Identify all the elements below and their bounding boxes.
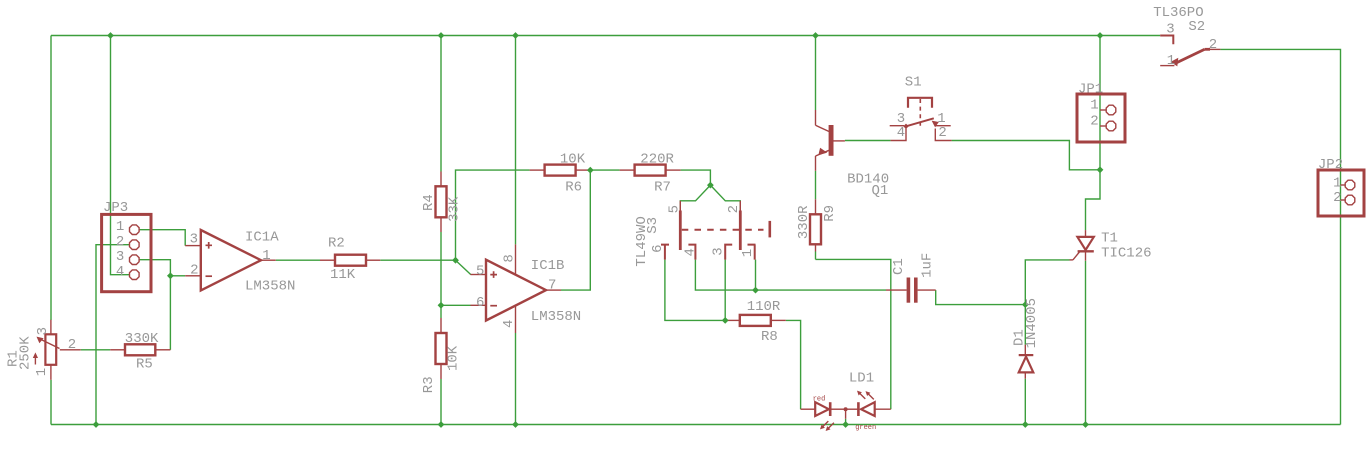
- svg-text:R5: R5: [136, 356, 153, 372]
- svg-text:11K: 11K: [330, 267, 356, 283]
- pushbutton S1: [890, 98, 952, 141]
- svg-text:6: 6: [476, 295, 484, 311]
- svg-text:1: 1: [1167, 53, 1175, 69]
- junction R8 input: [722, 317, 729, 324]
- svg-text:JP2: JP2: [1318, 157, 1343, 173]
- switch S3 TL49WO: [661, 201, 770, 260]
- wire node C to IC1B -in: [441, 304, 471, 306]
- wire S3 pin3 down: [724, 260, 726, 321]
- svg-text:4: 4: [116, 264, 124, 280]
- wire node D to D1: [1024, 305, 1026, 345]
- svg-text:6: 6: [650, 244, 666, 252]
- junction top rail at JP1 column: [1097, 32, 1104, 39]
- svg-text:2: 2: [116, 234, 124, 250]
- junction node D: [1022, 301, 1029, 308]
- wire LD1 center to bottom rail: [845, 419, 847, 425]
- svg-text:red: red: [813, 396, 826, 404]
- junction bottom rail at JP3 column: [93, 421, 100, 428]
- svg-text:1: 1: [1333, 175, 1341, 191]
- svg-text:2: 2: [726, 205, 742, 213]
- svg-text:250K: 250K: [18, 336, 34, 370]
- resistor R6: [530, 165, 591, 176]
- thyristor T1 TIC126: [1070, 230, 1094, 261]
- svg-text:TIC126: TIC126: [1101, 246, 1151, 262]
- svg-text:1N4005: 1N4005: [1024, 298, 1040, 348]
- wire IC1B out up to R6 junction: [561, 170, 590, 290]
- svg-text:1: 1: [262, 248, 270, 264]
- wire S3 junction diagonal left to pin5: [680, 185, 710, 210]
- svg-text:110R: 110R: [747, 299, 781, 315]
- wire IC1A out to R2: [276, 259, 320, 261]
- svg-text:1: 1: [116, 219, 124, 235]
- resistor R5: [110, 344, 170, 355]
- wire JP1 column from top rail: [1099, 36, 1101, 170]
- wire R7 to S3 junction: [681, 170, 711, 185]
- svg-text:5: 5: [666, 205, 682, 213]
- junction S3 input: [707, 182, 714, 189]
- svg-text:2: 2: [1090, 114, 1098, 130]
- wire R2 to node B: [380, 259, 455, 261]
- svg-text:R2: R2: [328, 236, 345, 252]
- connector JP3: [102, 214, 151, 291]
- wire right edge (S2 pin2 to JP2 and bottom rail): [1220, 49, 1340, 424]
- wire left edge lower (R1 pin 1 to bottom rail): [50, 380, 52, 425]
- potentiometer R1: [33, 320, 81, 380]
- svg-text:3: 3: [1166, 22, 1174, 38]
- svg-text:3: 3: [35, 327, 51, 335]
- svg-text:220R: 220R: [640, 151, 674, 167]
- junction node B: [452, 257, 459, 264]
- wire node B diagonal to IC1B +in: [456, 260, 471, 274]
- svg-text:2: 2: [190, 262, 198, 278]
- op-amp U1 IC1B: [471, 244, 562, 333]
- wire IC1B pin4 to bottom rail: [515, 333, 517, 425]
- svg-text:T1: T1: [1101, 231, 1118, 247]
- resistor R3: [436, 318, 447, 379]
- svg-text:IC1A: IC1A: [245, 229, 279, 245]
- svg-text:C1: C1: [891, 258, 907, 275]
- wire top rail: [51, 35, 1160, 37]
- resistor R9: [810, 199, 821, 259]
- node A wire to IC1A -in: [170, 275, 185, 277]
- svg-text:2: 2: [938, 125, 946, 141]
- svg-text:33K: 33K: [447, 196, 463, 222]
- svg-text:330K: 330K: [125, 331, 159, 347]
- svg-text:R7: R7: [654, 180, 671, 196]
- wire R9 to green LED: [816, 259, 891, 409]
- svg-text:LM358N: LM358N: [245, 278, 295, 294]
- wire S3 junction diagonal right to pin2: [710, 185, 740, 210]
- svg-text:green: green: [855, 424, 876, 432]
- svg-text:3: 3: [711, 247, 727, 255]
- resistor R4: [436, 172, 447, 233]
- junction node C: [438, 302, 445, 309]
- wire left edge upper (top rail to R1 pin 3): [50, 36, 52, 321]
- wire R6 junction to R7: [590, 169, 619, 171]
- wire Q1 to R9: [815, 171, 817, 200]
- svg-text:S3: S3: [645, 217, 661, 234]
- junction top rail at JP3 column: [107, 32, 114, 39]
- wire R3 bottom to bottom rail: [440, 379, 442, 425]
- svg-text:1: 1: [740, 249, 756, 257]
- svg-text:10K: 10K: [560, 151, 586, 167]
- connector JP2: [1318, 170, 1364, 216]
- svg-text:10K: 10K: [446, 345, 462, 371]
- junction top rail at Q1 column: [812, 32, 819, 39]
- capacitor C1: [886, 278, 936, 303]
- wire S1 to T1 anode path: [952, 141, 1100, 170]
- junction bottom rail at T1: [1082, 421, 1089, 428]
- svg-text:JP1: JP1: [1078, 82, 1103, 98]
- svg-text:2: 2: [68, 337, 76, 353]
- junction S3 pin1: [752, 287, 759, 294]
- svg-text:S1: S1: [905, 75, 922, 91]
- wire R4 bottom to node C: [440, 232, 442, 305]
- svg-text:330R: 330R: [796, 205, 812, 239]
- svg-text:R4: R4: [421, 194, 437, 211]
- resistor R8: [725, 315, 786, 326]
- wire IC1B pin8 from top rail: [515, 36, 517, 245]
- svg-text:3: 3: [190, 231, 198, 247]
- svg-text:1: 1: [34, 368, 50, 376]
- diode D1 1N4005: [1019, 345, 1034, 379]
- wire JP3 pin3 to node A: [139, 260, 170, 276]
- svg-text:2: 2: [1333, 190, 1341, 206]
- wire Q1 base to S1: [845, 140, 891, 142]
- resistor R7: [620, 165, 681, 176]
- wire S3 pin4 to C1: [695, 260, 886, 291]
- svg-text:5: 5: [476, 263, 484, 279]
- LED LD1 green: [844, 391, 891, 419]
- junction bottom rail at D1: [1022, 421, 1029, 428]
- wire junction down to T1: [1086, 170, 1101, 230]
- wire S3 pin1 down: [755, 260, 757, 291]
- wire node A down to R5: [169, 276, 171, 350]
- wire D1 to bottom rail: [1024, 379, 1026, 425]
- svg-text:2: 2: [1209, 37, 1217, 53]
- wire Q1 emitter from top rail: [815, 36, 817, 111]
- junction top rail at R4 column: [438, 32, 445, 39]
- svg-text:4: 4: [897, 125, 905, 141]
- LED LD1 red: [801, 402, 846, 431]
- switch S2 TL36PO: [1160, 36, 1220, 67]
- wire C1 right to node D: [936, 290, 1026, 305]
- svg-text:7: 7: [548, 277, 556, 293]
- wire R1 wiper to R5: [81, 349, 111, 351]
- svg-text:S2: S2: [1188, 19, 1205, 35]
- svg-text:3: 3: [116, 249, 124, 265]
- svg-text:8: 8: [501, 254, 517, 262]
- junction top rail at IC1B pin8 column: [512, 32, 519, 39]
- junction bottom rail at LD1: [842, 421, 849, 428]
- wire R8 to LD1: [786, 320, 801, 409]
- junction node A: [167, 272, 174, 279]
- svg-text:R8: R8: [761, 329, 778, 345]
- svg-text:4: 4: [501, 320, 517, 328]
- junction bottom rail at R3 column: [438, 421, 445, 428]
- svg-text:R3: R3: [421, 376, 437, 393]
- svg-text:Q1: Q1: [872, 183, 889, 199]
- wire JP3 pin2 to bottom rail: [96, 245, 129, 425]
- svg-text:1: 1: [1090, 97, 1098, 113]
- svg-text:IC1B: IC1B: [531, 258, 565, 274]
- connector JP1: [1077, 94, 1125, 142]
- wire S3 pin6 down to R8: [665, 260, 725, 321]
- svg-text:LD1: LD1: [849, 371, 874, 387]
- wire T1 cathode to bottom rail: [1085, 261, 1087, 425]
- svg-text:R9: R9: [822, 205, 838, 222]
- junction bottom rail at IC1B pin4 column: [512, 421, 519, 428]
- wire JP3 pin4 from top rail: [111, 36, 130, 275]
- wire node B feedback up to R6: [456, 170, 530, 260]
- resistor R2: [320, 255, 380, 266]
- svg-text:JP3: JP3: [103, 200, 128, 216]
- wire JP3 pin1 to IC1A +in: [139, 230, 185, 246]
- svg-text:1uF: 1uF: [920, 253, 936, 278]
- svg-text:R6: R6: [565, 180, 582, 196]
- wire node C to R3 top: [440, 305, 442, 318]
- wire T1 gate to node D: [1025, 260, 1069, 305]
- wire bottom rail: [51, 424, 1341, 426]
- transistor Q1 BD140: [816, 110, 845, 171]
- svg-text:4: 4: [683, 248, 699, 256]
- junction R6 output: [587, 167, 594, 174]
- svg-text:LM358N: LM358N: [531, 309, 581, 325]
- junction T1 anode: [1097, 166, 1104, 173]
- wire R4 top to top rail: [440, 36, 442, 172]
- op-amp U1 IC1A: [185, 230, 276, 290]
